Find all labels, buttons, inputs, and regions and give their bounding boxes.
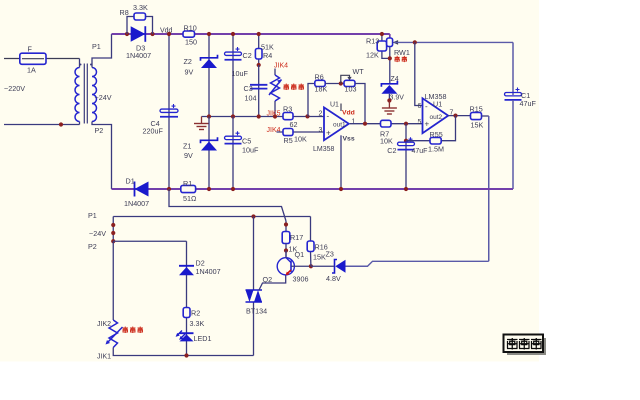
heater arrow	[108, 327, 123, 343]
junction R6 mid rail	[305, 114, 309, 118]
svg-text:out1: out1	[333, 122, 346, 129]
mid rail wire from ground to op-amp pin2	[202, 116, 325, 118]
wire R6 to WT	[325, 83, 344, 85]
resistor R16	[307, 241, 314, 252]
svg-text:LM358: LM358	[313, 146, 335, 153]
svg-text:JIK1: JIK1	[97, 354, 111, 361]
junction R55 left	[404, 139, 408, 143]
resistor R7	[381, 120, 392, 127]
schematic background	[0, 0, 539, 362]
svg-text:15K: 15K	[471, 121, 484, 130]
resistor R2	[183, 308, 190, 318]
svg-text:JIK2: JIK2	[97, 321, 111, 328]
svg-text:5: 5	[418, 119, 422, 126]
capacitor C4	[160, 109, 178, 112]
svg-text:JIK4: JIK4	[274, 63, 288, 70]
RW1 wiper arrow	[393, 40, 399, 45]
svg-text:R13: R13	[366, 37, 379, 46]
svg-text:P2: P2	[95, 126, 104, 135]
junction rail Vss opamp	[339, 187, 343, 191]
resistor R13 wires	[381, 34, 383, 41]
resistor R8	[134, 13, 146, 20]
click-to-view box	[504, 335, 544, 353]
svg-text:JIK4: JIK4	[267, 127, 281, 134]
label tiaowen chinese	[395, 56, 400, 62]
wire pin6 vertical	[415, 42, 423, 105]
svg-text:C5: C5	[242, 137, 251, 146]
svg-text:R3: R3	[283, 105, 292, 114]
ground main	[201, 117, 203, 124]
junction on bottom 220V wire	[59, 122, 63, 126]
junction winding dot1	[111, 223, 115, 227]
op-amp U1 first half LM358	[324, 107, 349, 140]
svg-text:P1: P1	[88, 211, 97, 220]
zener Z1 wire	[208, 117, 210, 190]
junction wiper to pin6	[413, 40, 417, 44]
WT wiper loop	[341, 75, 350, 83]
zener Z3 right wire to feedback	[346, 261, 489, 266]
svg-text:3.9V: 3.9V	[390, 95, 405, 102]
capacitor C2	[225, 52, 242, 55]
svg-text:47uF: 47uF	[412, 148, 428, 155]
heater element zigzag	[109, 320, 118, 348]
svg-text:3906: 3906	[293, 275, 309, 284]
svg-text:U1: U1	[330, 101, 339, 108]
thermocouple sensor body	[271, 75, 280, 101]
svg-text:10uF: 10uF	[242, 146, 259, 155]
svg-text:C2: C2	[387, 146, 396, 155]
thermocouple sensor wire top	[274, 69, 276, 76]
junction rail Z1	[207, 187, 211, 191]
junction C4 top	[167, 32, 171, 36]
svg-text:6: 6	[418, 103, 422, 110]
svg-text:3.3K: 3.3K	[133, 3, 148, 12]
svg-text:R8: R8	[120, 8, 129, 17]
svg-text:R10: R10	[184, 24, 197, 33]
junction Q1 base node	[309, 264, 313, 268]
resistor R4	[255, 49, 262, 60]
junction R4 bottom	[257, 63, 261, 67]
capacitor C3	[250, 84, 267, 86]
triac Q2 wires	[253, 302, 255, 356]
click-to-view text	[507, 338, 518, 350]
thermocouple sensor wire bottom	[274, 101, 276, 117]
junction R13-RW1 bottom	[388, 56, 392, 60]
fuse F	[20, 53, 46, 64]
svg-text:R17: R17	[290, 233, 303, 242]
LED LED1	[180, 334, 194, 341]
svg-text:R1: R1	[183, 179, 192, 188]
svg-text:Z2: Z2	[184, 57, 192, 66]
wire P1-P2 vertical	[112, 217, 114, 242]
wire P2 line	[113, 240, 186, 242]
resistor R6	[315, 80, 325, 86]
resistor R3	[283, 113, 293, 120]
wire D2 chain vertical	[186, 241, 188, 355]
svg-text:JIK5: JIK5	[267, 111, 281, 118]
svg-text:1.5M: 1.5M	[428, 145, 444, 154]
wire R17 top	[285, 221, 287, 232]
resistor R10	[183, 31, 195, 37]
transformer polarity dots	[80, 64, 82, 66]
svg-text:3.3K: 3.3K	[190, 319, 205, 328]
junction P1 triac	[251, 214, 255, 218]
resistor R17	[282, 232, 290, 244]
svg-text:220uF: 220uF	[143, 127, 164, 136]
zener Z4	[381, 81, 397, 87]
wire P1 line	[113, 216, 310, 218]
thermocouple arrow	[269, 80, 282, 96]
svg-text:104: 104	[245, 94, 257, 103]
svg-text:2: 2	[319, 110, 323, 117]
RW1 wiper wire to C1	[394, 41, 513, 43]
svg-text:-: -	[425, 102, 428, 111]
svg-text:D1: D1	[126, 177, 135, 186]
wire secondary top to Vdd rail	[92, 34, 112, 68]
svg-text:R55: R55	[430, 130, 443, 139]
svg-text:47uF: 47uF	[520, 99, 537, 108]
Vdd top rail	[112, 33, 390, 35]
svg-text:BT134: BT134	[246, 307, 267, 316]
svg-text:RW1: RW1	[394, 48, 410, 57]
svg-text:~24V: ~24V	[95, 93, 112, 102]
svg-text:Q1: Q1	[295, 250, 305, 259]
Q1 base wire	[291, 265, 311, 267]
junction winding dot3	[111, 239, 115, 243]
zener Z2 wire	[208, 34, 210, 117]
svg-text:150: 150	[185, 38, 197, 47]
svg-text:1N4007: 1N4007	[196, 267, 221, 276]
svg-text:Z1: Z1	[183, 142, 191, 151]
junction R4 top	[257, 32, 261, 36]
resistor R55	[430, 137, 441, 144]
svg-text:62: 62	[290, 120, 298, 129]
potentiometer WT	[344, 80, 355, 86]
transistor Q1 3906	[277, 258, 294, 275]
svg-text:~24V: ~24V	[89, 229, 106, 238]
resistor R13	[377, 41, 386, 51]
resistor R16 wires	[310, 217, 312, 242]
svg-text:C2: C2	[243, 51, 252, 60]
label thermocouple chinese	[284, 84, 290, 91]
potentiometer RW1 wires	[389, 34, 391, 38]
junction winding dot2	[111, 231, 115, 235]
wire out2	[448, 115, 471, 117]
Vss bottom rail	[112, 188, 514, 190]
capacitor C1 wire top	[512, 42, 514, 95]
junction R6-WT	[339, 81, 343, 85]
svg-text:R4: R4	[263, 51, 272, 60]
resistor R15	[471, 112, 482, 119]
junction C5 mid	[231, 114, 235, 118]
svg-text:C3: C3	[244, 84, 253, 93]
transformer T secondary coil	[92, 68, 97, 122]
svg-text:F: F	[28, 45, 33, 54]
svg-text:12K: 12K	[366, 51, 379, 60]
wire R17 to Q1	[285, 244, 287, 259]
junction Z1 mid	[207, 114, 211, 118]
svg-text:18K: 18K	[315, 85, 328, 94]
svg-text:15K: 15K	[313, 253, 326, 262]
opamp1 Vss wire to rail	[340, 135, 342, 189]
zener Z4 bottom wire	[388, 94, 390, 101]
wire ~220V top line	[4, 58, 80, 60]
junction rail C5	[231, 187, 235, 191]
resistor R55 wires	[406, 140, 430, 142]
Q1 top wire	[285, 251, 287, 259]
zener Z1	[201, 142, 217, 151]
svg-text:P1: P1	[92, 42, 101, 51]
capacitor C3 wire	[258, 65, 260, 117]
wire R15 to feedback drop	[482, 115, 489, 117]
svg-text:-: -	[327, 112, 330, 121]
ground for Z4	[388, 101, 390, 108]
junction rail C2b	[404, 187, 408, 191]
zener Z2	[201, 59, 217, 68]
svg-text:4.8V: 4.8V	[326, 274, 341, 283]
click-to-view box shadow	[507, 338, 546, 355]
svg-text:51Ω: 51Ω	[183, 194, 197, 203]
junction WT feedback on out1	[363, 122, 367, 126]
zener Z3	[332, 260, 337, 274]
junction C3 bottom	[257, 114, 261, 118]
svg-text:R5: R5	[284, 136, 293, 145]
svg-text:LED1: LED1	[194, 334, 212, 343]
svg-text:10K: 10K	[294, 135, 307, 144]
svg-text:9V: 9V	[185, 68, 194, 77]
svg-text:Z3: Z3	[326, 250, 334, 259]
svg-text:P2: P2	[88, 242, 97, 251]
resistor R5 wire	[277, 131, 325, 133]
zener Z3 left wire	[311, 265, 335, 267]
label dianlaotie chinese	[123, 327, 129, 334]
transformer T core	[83, 64, 85, 124]
resistor R1	[181, 185, 196, 192]
junction R17 bottom	[284, 248, 288, 252]
svg-text:3: 3	[319, 127, 323, 134]
junction thermocouple bottom	[273, 114, 277, 118]
capacitor C2b	[398, 142, 415, 145]
transformer T primary coil	[75, 68, 80, 122]
capacitor C2 wire	[232, 34, 234, 117]
junction Z2 top	[207, 32, 211, 36]
diode D2	[179, 267, 194, 275]
triac Q2 BT134	[246, 289, 263, 291]
capacitor C5 wire	[232, 117, 234, 190]
feedback vertical wire right	[488, 116, 490, 261]
junction out2	[453, 114, 457, 118]
svg-text:R6: R6	[315, 73, 324, 82]
junction left of D3	[125, 32, 129, 36]
junction R17 top	[284, 222, 288, 226]
svg-text:Z4: Z4	[391, 76, 399, 83]
resistor R8 branch wires	[127, 17, 135, 35]
svg-text:1N4007: 1N4007	[124, 199, 149, 208]
potentiometer RW1	[387, 38, 393, 47]
wire heater vertical	[112, 241, 114, 320]
wire Vss to bottom section	[169, 189, 286, 221]
diode D1	[135, 182, 149, 197]
svg-text:R15: R15	[470, 105, 483, 114]
capacitor C2b wire	[405, 124, 407, 189]
capacitor C5	[225, 136, 242, 139]
op-amp U1 second half LM358	[423, 98, 449, 133]
transformer T primary riser top	[79, 59, 81, 68]
svg-text:Vss: Vss	[343, 135, 355, 142]
feedback R6 vertical wire	[308, 84, 315, 117]
resistor R4 wire	[258, 34, 260, 65]
opamp1 Vdd stub	[340, 104, 342, 112]
junction rail C4	[167, 187, 171, 191]
svg-text:U1: U1	[433, 100, 442, 109]
wire WT to out1 node	[355, 84, 365, 124]
junction out1-C2-pin5	[404, 122, 408, 126]
junction Z4 ground	[387, 98, 391, 102]
svg-text:WT: WT	[353, 67, 365, 76]
wire secondary bottom to Vss rail	[92, 122, 112, 190]
svg-text:~220V: ~220V	[4, 84, 25, 93]
triac gate wire	[259, 275, 286, 290]
junction LED1 bottom rail	[184, 353, 188, 357]
bottom rail of heater section	[113, 348, 253, 356]
capacitor C1	[505, 93, 522, 96]
capacitor C1 wire bottom	[512, 100, 514, 189]
svg-text:10K: 10K	[380, 137, 393, 146]
capacitor C4 wire	[168, 34, 170, 189]
svg-text:1N4007: 1N4007	[126, 51, 151, 60]
junction R13 top	[380, 32, 384, 36]
svg-text:out2: out2	[430, 114, 443, 121]
wire ~220V bottom line	[4, 124, 80, 126]
junction C2 top	[231, 32, 235, 36]
diode D3	[131, 26, 146, 42]
wire out1	[350, 123, 423, 125]
svg-text:R2: R2	[191, 309, 200, 318]
junction right of D3	[150, 32, 154, 36]
svg-text:9V: 9V	[184, 151, 193, 160]
svg-text:1A: 1A	[27, 66, 36, 75]
svg-text:10uF: 10uF	[232, 69, 249, 78]
svg-text:+: +	[326, 129, 331, 138]
svg-text:103: 103	[345, 85, 357, 94]
resistor R5	[283, 129, 293, 136]
svg-text:Vdd: Vdd	[342, 110, 355, 117]
transformer T primary riser bottom	[79, 122, 81, 125]
